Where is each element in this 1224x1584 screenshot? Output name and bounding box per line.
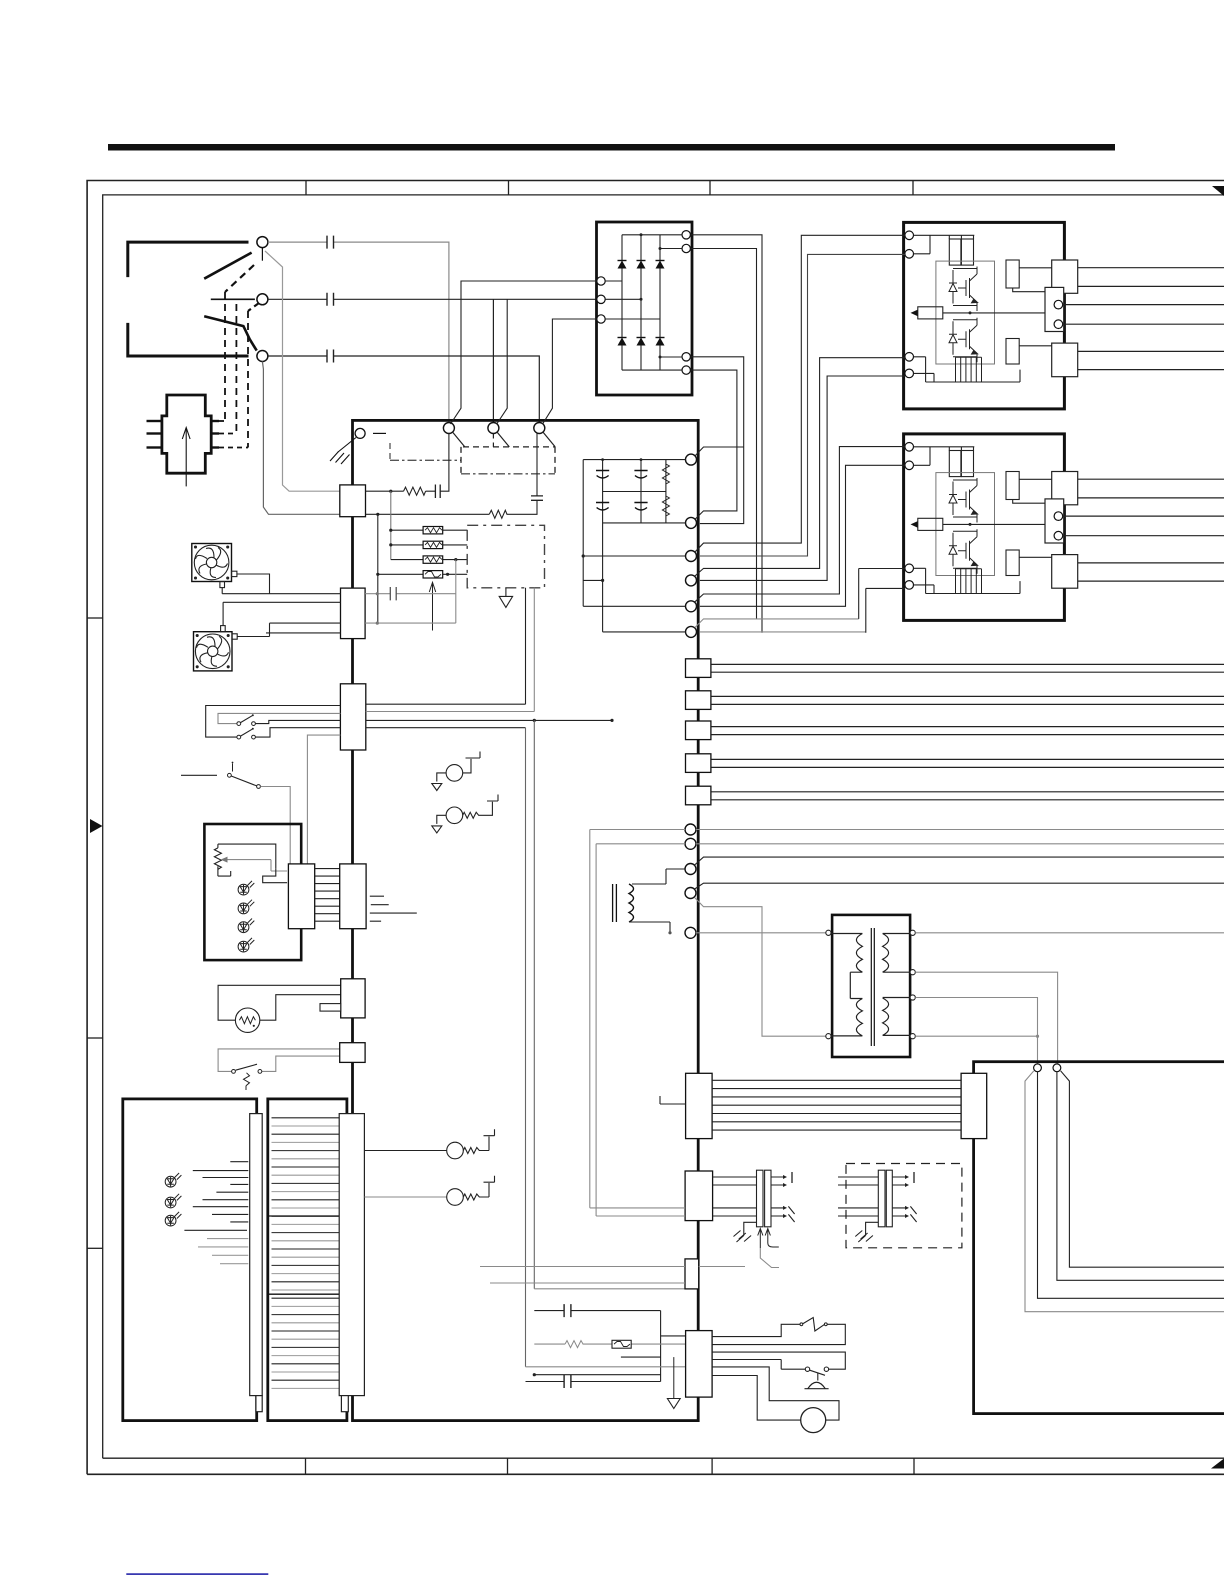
electrolytic capacitor C2b (634, 503, 647, 511)
T1 primary winding (831, 934, 862, 1036)
protector bell (808, 1382, 826, 1388)
pressure switch PS1 (232, 1070, 236, 1074)
wire circle6 to IGBT2 in4 (grey) (700, 631, 866, 633)
capacitor phase L3 (327, 350, 334, 363)
current transformer body (162, 395, 211, 473)
relay center dash stub (492, 434, 494, 447)
breaker contact circle pole2 (257, 294, 268, 305)
CN2 cap wire (grey) (365, 593, 456, 595)
title rule (108, 144, 1115, 151)
fan motor FM2 (194, 626, 238, 671)
dip switch SW2 (237, 735, 241, 739)
breaker contact circle pole1 (257, 237, 268, 248)
diode D2 (637, 261, 646, 269)
outdoor-indoor interface box (974, 1062, 1224, 1414)
test line near thermal switch (181, 774, 217, 776)
wire breaker pole3 to CN1 (262, 362, 339, 515)
linkage dashed vertical 3 (247, 311, 249, 448)
junction dot row2 (376, 513, 379, 516)
fuse F3 (423, 556, 443, 563)
diode D1 (618, 261, 627, 269)
grey DC sense wire 2 (596, 844, 1224, 1216)
border tick left 2 (87, 1037, 103, 1039)
LED D22 (165, 1194, 181, 1208)
CN7 wire 1 to overload relay (712, 1324, 800, 1336)
CT pin right 1 (211, 420, 219, 422)
CN3 connector (340, 684, 365, 750)
PCB edge connector pair 1 (686, 659, 711, 678)
LED D12 (238, 900, 254, 914)
wire phase L1 (grey) (268, 241, 327, 243)
CN6 connector (340, 1043, 365, 1063)
bottom row capacitor C32 (526, 1381, 661, 1383)
bridge output circle bot1 (682, 353, 690, 361)
electrolytic capacitor C2a (634, 471, 647, 479)
LED D11 (238, 881, 254, 895)
wire phase L3 (268, 356, 539, 423)
T1 right terminal 1 (910, 930, 915, 935)
breaker pole2 feed (211, 298, 255, 300)
relay linkage dash-dot horizontal (390, 459, 461, 461)
bottom row to CN7 (534, 1374, 660, 1376)
PCB edge connector pair 3 (686, 721, 711, 740)
hybrid IC dashed box (467, 525, 544, 588)
ribbon cable to CN4 (315, 869, 340, 922)
CT sense arrow (185, 429, 187, 486)
relay blade C (543, 432, 555, 447)
compressor motor M (801, 1408, 826, 1433)
pressure switch wires (grey) (218, 1049, 340, 1072)
CN9 connector (685, 1259, 699, 1289)
bus connector right (961, 1073, 987, 1138)
reactor bottom lead (629, 922, 670, 933)
PCB edge connector pair 5 (686, 786, 711, 805)
border tick top 3 (709, 181, 711, 195)
wire circle3 to IGBT1 gate2 (700, 254, 905, 556)
noise filter row1 wire (366, 434, 449, 492)
sensor probe P3 (364, 1129, 494, 1159)
CN5 connector (341, 979, 365, 1018)
border marker triangle top right (1212, 186, 1224, 196)
T1 right terminal 3 (910, 995, 915, 1000)
CT pin right 2 (211, 432, 219, 434)
LED D13 (238, 919, 254, 933)
diode bridge box (597, 222, 693, 395)
CN7 wire 5 to compressor right (712, 1367, 839, 1420)
DC link wire bridge top2 (690, 249, 756, 619)
CT pin left 1 (147, 420, 162, 422)
CN3 wire left 1 (206, 706, 341, 738)
CN1 connector (340, 485, 366, 517)
T1 output to right box circle A (grey) (915, 998, 1037, 1064)
relay contact circle C (534, 423, 545, 434)
bridge feed jog to relay A (451, 281, 597, 424)
wire circle3 to IGBT1 gate1 (695, 235, 905, 552)
VR1 lower wire (218, 866, 231, 876)
sensor probe P1 (432, 752, 480, 791)
reactor core bars (613, 884, 617, 922)
junction dot row1 (389, 490, 392, 493)
plug-socket pair (757, 1170, 764, 1227)
PCB edge circle 6 (686, 626, 697, 637)
PCB edge connector pair 2 (686, 691, 711, 710)
breaker blade pole1 (204, 253, 251, 279)
bridge input circle 2 (597, 295, 605, 303)
capacitor phase L2 (327, 293, 334, 306)
PCB edge circle 4 (686, 575, 697, 586)
circuit breaker frame (128, 242, 249, 356)
T1 right terminal 2 (910, 970, 915, 975)
linkage dashed vertical 2 (235, 304, 237, 434)
plug pins right (771, 1177, 784, 1216)
relay coil dashed box right (554, 447, 556, 474)
resistor row2 (489, 510, 507, 518)
border tick bottom 2 (507, 1458, 509, 1474)
CT pin left 2 (147, 432, 162, 434)
border tick top 1 (305, 181, 307, 195)
IGBT module 1 (904, 222, 1224, 409)
bleeder resistor Ra (662, 464, 669, 484)
diode D4 (618, 338, 627, 346)
ribbon column C foot (341, 1396, 348, 1412)
CN5 key tab (320, 1004, 341, 1012)
DC link wire bridge top1 (690, 235, 762, 633)
grey tail wire (760, 1248, 779, 1268)
grey DC sense wire 1 (590, 830, 1224, 1208)
reactor wire to circle9 (632, 869, 685, 884)
CN7 wire 3 to protector (712, 1352, 845, 1369)
long vertical to bottom rows A (533, 720, 535, 1288)
T1 secondary winding 2 (883, 998, 910, 1036)
border marker triangle bottom right (1211, 1459, 1224, 1469)
border frame outer (87, 181, 1224, 1475)
ground arrow near CN7 (673, 1357, 675, 1398)
VR1 wiper (grey) (226, 860, 287, 871)
bridge output circle bot2 (682, 366, 690, 374)
noise filter row2 wire (366, 500, 538, 514)
bleeder resistor Rb (662, 496, 669, 516)
relay contact circle B (488, 423, 499, 434)
wire circle4 to IGBT1 in4 (700, 376, 905, 580)
thermal fuse F4 (423, 571, 443, 578)
fuse row2 wire (391, 544, 467, 546)
capacitor row1 (435, 485, 440, 499)
PCB edge circle 1 (686, 454, 697, 465)
DC link wire bridge bot1 (690, 357, 743, 524)
bus vertical x377 (377, 514, 379, 623)
grey wire circle11 to transformer (696, 932, 826, 934)
PCB edge circle 3 (686, 551, 697, 562)
CN3 wire right 4 (366, 727, 526, 729)
relay blade B (497, 432, 509, 447)
bus vertical x390 (390, 491, 392, 559)
wire phase L2 (268, 298, 597, 300)
dash stub right of terminal (373, 432, 386, 434)
CN2 connector (341, 588, 366, 639)
bridge feed jog to relay C (543, 319, 597, 424)
capacitor phase L1 (327, 236, 334, 249)
fuse row1 wire (391, 529, 467, 531)
CN3 wire right 3 (366, 719, 612, 721)
CN4 connector (340, 864, 366, 929)
sensor probe P2 (432, 795, 498, 833)
PCB edge circle 7 (685, 824, 696, 835)
interface wire A1 (grey) (1025, 1071, 1224, 1312)
bottom row grey long (526, 1366, 686, 1368)
main control PCB outline (353, 420, 699, 1420)
CN10 bus connector left (686, 1073, 713, 1138)
CN7 connector (686, 1331, 713, 1398)
reactor L1 coil (629, 884, 634, 922)
ground arrow under hybrid IC (505, 588, 507, 597)
fuse F2 (423, 541, 443, 548)
bridge input circle 3 (597, 315, 605, 323)
diode D6 (656, 338, 665, 346)
LED D21 (165, 1173, 181, 1187)
bridge input wires (605, 281, 660, 319)
breaker blade pole3 (204, 316, 257, 350)
PCB edge circle 10 (685, 888, 696, 899)
CN8 connector (685, 1171, 713, 1221)
wire circle4 to IGBT1 in3 (695, 358, 905, 576)
thermal protector switch (805, 1367, 809, 1371)
wire breaker pole1 to CN1 (grey) (265, 251, 340, 491)
T1 output wire right 1 (grey) (915, 932, 1224, 934)
border tick left 3 (87, 1247, 103, 1249)
border frame inner (103, 195, 1224, 1458)
spare plug pins right (892, 1177, 906, 1216)
CN7 wire 6 to compressor left (712, 1376, 801, 1421)
ribbon column A foot (256, 1396, 262, 1412)
CN3 wire left 2 (grey) (218, 713, 340, 723)
smoothing capacitor bank rails (583, 460, 685, 632)
T1 core (871, 928, 874, 1046)
wire circle5 to IGBT2 in2 (700, 465, 905, 606)
wire circle5 to IGBT2 in1 (695, 447, 905, 602)
grey wire circle10 to transformer (695, 898, 828, 1037)
border tick bottom 3 (711, 1458, 713, 1474)
CN9 grey wires (480, 1267, 685, 1284)
fan1 wires (222, 574, 340, 594)
bottom row stub (621, 1356, 661, 1358)
PCB terminal circle near corner (355, 428, 365, 438)
wire circle1 jog to DC rail (695, 447, 744, 456)
IGBT module 2 (904, 434, 1224, 621)
PCB edge circle 5 (686, 601, 697, 612)
PCB edge connector pair 4 (686, 754, 711, 773)
ribbon ladder cable (272, 1118, 340, 1389)
temperature sense arrow (432, 584, 434, 631)
T1 right terminal 4 (910, 1034, 915, 1039)
border tick bottom 1 (305, 1458, 307, 1474)
spare plug-socket pair (878, 1170, 885, 1227)
electrolytic capacitor C1b (596, 503, 609, 511)
CN8 plug wires (713, 1177, 757, 1216)
spare connector dashed box (846, 1164, 962, 1248)
interface circle B (1053, 1064, 1061, 1072)
overload relay OL (800, 1323, 803, 1326)
spare plug ground (866, 1222, 879, 1235)
PCB edge circle 2 (686, 517, 697, 528)
fuse row3 wire (391, 559, 467, 561)
bridge output circle top1 (682, 231, 690, 239)
T1 left terminal 1 (826, 930, 831, 935)
bridge output circle top2 (682, 244, 690, 252)
bridge input circle 1 (597, 277, 605, 285)
OL return to CN7 (712, 1324, 845, 1344)
thermistor TH1 wires (218, 985, 341, 1020)
interface wire B2 (1057, 1072, 1224, 1281)
border tick bottom 4 (913, 1458, 915, 1474)
terminal board box L (123, 1099, 257, 1421)
thermistor TH1 (235, 1008, 259, 1032)
ribbon column C (339, 1114, 364, 1396)
fan motor FM1 (192, 544, 237, 588)
border marker triangle left (90, 819, 103, 833)
CT pin left 3 (147, 446, 162, 448)
T1 left terminal 2 (826, 1034, 831, 1039)
breaker linkage diagonal pole2 (248, 303, 259, 311)
bottom row resistor R31 and fuse (534, 1343, 685, 1345)
interface wire B1 (1061, 1071, 1224, 1267)
capacitor CN2 (390, 587, 396, 600)
T1 bottom output joins vertical (grey) (915, 1035, 1037, 1037)
chassis ground at PCB corner (338, 438, 356, 453)
sensor probe P4 (364, 1196, 446, 1198)
CT pin right 3 (211, 446, 219, 448)
border tick top 2 (508, 181, 510, 195)
wire circle6 to IGBT2 in3 (grey jog) (695, 619, 859, 628)
plug direction arrows (758, 1229, 763, 1249)
bridge feed jog to relay B (497, 299, 508, 424)
bus wires to right box (712, 1080, 961, 1130)
plug ground lead (744, 1222, 757, 1235)
fuse F1 (423, 527, 443, 534)
CN10 stub inside PCB (660, 1096, 686, 1104)
capacitor row2 vertical (531, 496, 543, 500)
test pad lines (184, 1162, 248, 1231)
protector to CN7 wire 4 (712, 1360, 805, 1370)
relay linkage dash vertical (389, 443, 391, 460)
CN3 wire right 1 (366, 588, 526, 704)
fuse row4 wire (378, 573, 467, 575)
diode D3 (656, 261, 665, 269)
wire cap to relay C (536, 434, 538, 496)
LED board connector (288, 864, 314, 929)
DC link wire bridge bot2 (690, 370, 737, 519)
relay contact circle A (443, 423, 454, 434)
linkage dashed stub 3 (219, 447, 248, 449)
relay blade A (453, 432, 465, 447)
PCB edge circle 8 (685, 838, 696, 849)
wire into CN7 top (661, 1335, 686, 1337)
potentiometer VR1 (214, 848, 221, 870)
CN8 left grey wires (590, 1208, 685, 1216)
interface wire A2 (1038, 1072, 1224, 1299)
ladder section separators (268, 1215, 347, 1217)
breaker contact stem pole1 (261, 248, 263, 261)
PCB edge circle 11 (685, 927, 696, 938)
linkage dashed stub 2 (219, 433, 236, 435)
relay coil dash-dot bottom (461, 473, 555, 475)
breaker linkage diagonal pole1 (225, 265, 254, 292)
reactor feed wire long (695, 857, 1224, 865)
LED D14 (238, 938, 254, 952)
T1 output to right box circle B (grey) (915, 972, 1057, 1063)
T1 secondary winding 1 (883, 934, 910, 973)
diode D5 (637, 338, 646, 346)
CN3 wire right 2 (grey) (366, 588, 535, 712)
LED display board box (204, 824, 301, 960)
breaker contact circle pole3 (257, 351, 268, 362)
interface circle A (1034, 1064, 1042, 1072)
bottom rows: grey row to CN9 (534, 1288, 685, 1290)
thermal switch TS1 (228, 773, 232, 777)
CN4 stub lines (370, 896, 417, 921)
grey wire thermal switch to LED board conn (260, 787, 290, 864)
CN3 wire left 5 (grey) to LED conn (307, 735, 340, 864)
wire circle10 long (695, 883, 1224, 889)
grey wire CN2 lower (365, 622, 456, 624)
dip switch SW1 (237, 722, 241, 726)
relay coil dashed box left edge (460, 447, 462, 474)
bottom row capacitor C31 (534, 1311, 660, 1382)
border tick left 1 (87, 617, 103, 619)
fan2 wires (223, 602, 340, 636)
long vertical to bottom rows B (525, 728, 527, 1367)
relay coil dashed box top (463, 446, 555, 448)
spare plug wires (838, 1177, 878, 1216)
border tick top 4 (912, 181, 914, 195)
electrolytic capacitor C1a (596, 471, 609, 479)
PCB edge circle 9 (685, 864, 696, 875)
terminal board box M (268, 1099, 347, 1421)
resistor row1 (404, 487, 426, 495)
grey bus vertical x455 (455, 560, 457, 624)
linkage dashed stub 1 (219, 420, 225, 422)
linkage dashed vertical 1 (224, 292, 226, 421)
transformer T1 box (832, 915, 910, 1057)
ribbon column A (250, 1114, 263, 1396)
LED D23 (165, 1212, 181, 1226)
blue footer underline (126, 1573, 268, 1575)
bridge internal rails (622, 235, 682, 370)
